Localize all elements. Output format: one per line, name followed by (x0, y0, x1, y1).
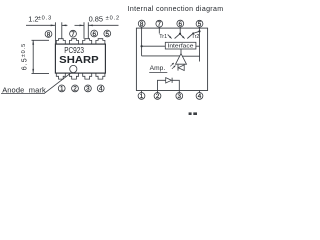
svg-text:1: 1 (140, 93, 144, 100)
svg-text:0.85: 0.85 (89, 15, 103, 24)
svg-text:5: 5 (106, 31, 110, 38)
svg-text:Internal connection diagram: Internal connection diagram (128, 6, 224, 13)
svg-text:8: 8 (140, 21, 144, 28)
svg-text:3: 3 (86, 86, 90, 93)
svg-text:7: 7 (71, 31, 75, 38)
svg-text:7: 7 (158, 21, 162, 28)
svg-text:±0.2: ±0.2 (106, 16, 120, 22)
svg-text:1: 1 (60, 86, 64, 93)
svg-text:Interface: Interface (168, 44, 194, 50)
svg-text:6.5: 6.5 (22, 57, 29, 70)
svg-text:5: 5 (198, 21, 202, 28)
svg-text:Anode mark: Anode mark (2, 86, 46, 95)
svg-text:SHARP: SHARP (59, 55, 99, 66)
svg-text:3: 3 (178, 93, 182, 100)
svg-text:6: 6 (179, 21, 183, 28)
svg-text:±0.3: ±0.3 (38, 16, 52, 22)
svg-text:PC923: PC923 (64, 46, 84, 55)
svg-text:Tr1: Tr1 (159, 34, 167, 40)
svg-text:4: 4 (99, 86, 103, 93)
svg-text:8: 8 (47, 31, 51, 38)
svg-text:4: 4 (198, 93, 202, 100)
svg-text:2: 2 (156, 93, 160, 100)
svg-text:6: 6 (92, 31, 96, 38)
svg-text:2: 2 (73, 86, 77, 93)
svg-text:Tr2: Tr2 (192, 34, 200, 40)
svg-text:±0.5: ±0.5 (21, 43, 27, 57)
svg-text:Amp.: Amp. (150, 65, 166, 72)
